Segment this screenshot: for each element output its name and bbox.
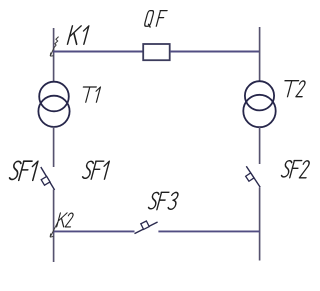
wire: left bus vertical, top segment above node K1 down to transformer T1 (53, 28, 55, 82)
label SF3 (148, 192, 179, 209)
label T2 (281, 81, 307, 97)
transformer T1, secondary winding circle (38, 96, 69, 127)
wire: bottom bus horizontal, left segment from K2 to switch SF3 (53, 230, 135, 232)
switch SF1 lever (open contact) (41, 167, 55, 190)
node K2 leader arrow at junction of left bus and bottom bus (50, 222, 58, 237)
label QF (144, 11, 167, 28)
transformer T2, primary winding circle (245, 81, 274, 110)
wire: bottom bus horizontal, right segment from SF3 to right bus (158, 230, 260, 232)
transformer T2, secondary winding circle (243, 95, 275, 127)
label T1 (79, 87, 100, 102)
label SF1 (right of switch SF1) (82, 161, 109, 179)
circuit breaker QF (rectangle body) (143, 44, 170, 60)
transformer T1, primary winding circle (39, 82, 69, 112)
switch SF2 breaker square on lever (246, 173, 254, 181)
wire: top bus horizontal, left segment from K1 to QF (53, 51, 143, 53)
wire: left bus vertical, segment from SF1 down through node K2 to bottom end (53, 190, 55, 263)
label K2 (57, 213, 75, 227)
label K1 (67, 26, 88, 44)
wire: top bus horizontal, right segment from QF to right bus (170, 51, 260, 53)
switch SF2 lever (open contact) (246, 166, 260, 187)
wire: right bus vertical, top segment above top bus down to transformer T2 (259, 27, 261, 82)
switch SF1 breaker square on lever (41, 176, 50, 185)
wire: right bus vertical, segment from SF2 down through bottom bus to bottom end (259, 187, 261, 260)
wire: right bus vertical, segment from T2 down to switch SF2 (259, 127, 261, 164)
switch SF3 lever (open contact) (135, 222, 158, 234)
switch SF3 breaker square on lever (141, 221, 149, 229)
label SF2 (281, 161, 311, 178)
wire: left bus vertical, segment from T1 down to switch SF1 (53, 127, 55, 168)
node K1 leader arrow at junction of left bus and top bus (50, 37, 58, 57)
label SF1 (left of switch SF1) (9, 161, 38, 180)
